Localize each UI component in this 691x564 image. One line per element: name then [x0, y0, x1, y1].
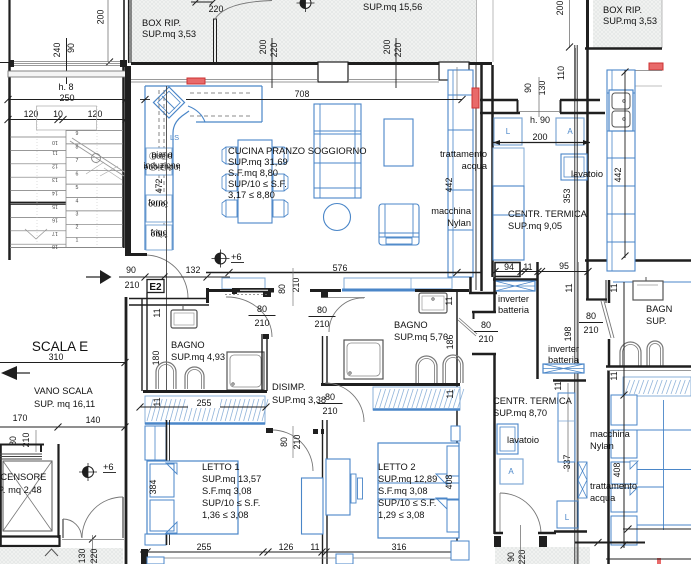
svg-text:16: 16 [52, 217, 58, 223]
svg-text:9: 9 [76, 131, 79, 137]
svg-text:130: 130 [77, 549, 87, 564]
svg-text:210: 210 [291, 278, 301, 293]
svg-text:CENTR. TERMICA: CENTR. TERMICA [508, 209, 588, 219]
svg-text:LS: LS [170, 133, 179, 142]
svg-text:inverter: inverter [548, 344, 579, 354]
svg-text:3,17 ≤ 8,80: 3,17 ≤ 8,80 [228, 189, 275, 200]
svg-text:132: 132 [186, 265, 201, 275]
svg-text:80: 80 [586, 311, 596, 321]
svg-text:CENTR. TERMICA: CENTR. TERMICA [493, 396, 573, 406]
svg-text:L: L [506, 127, 511, 136]
svg-text:Nylan: Nylan [590, 441, 614, 451]
svg-text:12: 12 [52, 163, 58, 169]
svg-text:110: 110 [556, 66, 566, 80]
svg-text:11: 11 [564, 283, 574, 292]
svg-text:255: 255 [197, 542, 212, 552]
svg-text:11: 11 [52, 149, 57, 155]
svg-text:210: 210 [583, 325, 598, 335]
svg-text:1,29 ≤ 3,08: 1,29 ≤ 3,08 [378, 510, 424, 520]
svg-text:408: 408 [444, 475, 454, 490]
svg-text:220: 220 [393, 43, 403, 58]
svg-text:80: 80 [481, 320, 491, 330]
svg-text:210: 210 [478, 334, 493, 344]
svg-text:90: 90 [523, 83, 533, 93]
svg-text:macchina: macchina [590, 429, 631, 439]
svg-text:11: 11 [609, 283, 619, 292]
svg-text:lavatoio: lavatoio [571, 169, 603, 179]
svg-text:198: 198 [563, 327, 573, 342]
svg-text:1: 1 [76, 238, 79, 244]
svg-text:11: 11 [553, 381, 563, 390]
svg-text:VANO SCALA: VANO SCALA [34, 386, 94, 396]
svg-text:200: 200 [382, 40, 392, 55]
svg-text:80: 80 [317, 305, 327, 315]
svg-text:200: 200 [96, 10, 106, 25]
svg-text:170: 170 [13, 413, 28, 423]
svg-text:11: 11 [152, 397, 162, 406]
svg-text:11: 11 [523, 262, 532, 272]
svg-text:BOX RIP.: BOX RIP. [142, 18, 181, 28]
svg-text:L: L [565, 513, 570, 522]
svg-text:piano: piano [151, 152, 172, 162]
svg-text:+6: +6 [103, 462, 114, 472]
svg-text:SUP.mq 13,57: SUP.mq 13,57 [202, 474, 261, 484]
svg-text:186: 186 [445, 335, 455, 350]
svg-text:lavatoio: lavatoio [507, 435, 539, 445]
svg-text:90: 90 [126, 265, 136, 275]
svg-text:SUP. mq 16,11: SUP. mq 16,11 [34, 399, 95, 409]
svg-text:trattamento: trattamento [590, 481, 637, 491]
svg-text:SUP.mq 31,69: SUP.mq 31,69 [228, 156, 288, 167]
svg-text:210: 210 [322, 406, 337, 416]
svg-text:acqua: acqua [462, 161, 488, 171]
svg-text:210: 210 [314, 319, 329, 329]
svg-text:11: 11 [152, 308, 162, 317]
svg-text:316: 316 [392, 542, 407, 552]
svg-text:310: 310 [49, 352, 64, 362]
svg-text:708: 708 [295, 89, 310, 99]
svg-text:SUP.mq 15,56: SUP.mq 15,56 [363, 2, 422, 12]
svg-text:BAGNO: BAGNO [394, 320, 428, 330]
svg-text:5: 5 [76, 185, 79, 191]
svg-text:220: 220 [269, 43, 279, 58]
svg-text:220: 220 [517, 550, 527, 564]
svg-text:17: 17 [52, 230, 58, 236]
svg-text:SUP.mq 8,70: SUP.mq 8,70 [493, 408, 547, 418]
svg-text:batteria: batteria [498, 305, 530, 315]
svg-text:+6: +6 [231, 252, 242, 262]
svg-text:SUP.mq 9,05: SUP.mq 9,05 [508, 221, 562, 231]
svg-text:120: 120 [88, 109, 103, 119]
svg-text:SUP.mq 12,89: SUP.mq 12,89 [378, 474, 437, 484]
svg-text:SUP.: SUP. [646, 316, 667, 326]
svg-text:frigo: frigo [150, 230, 167, 240]
svg-text:15: 15 [52, 203, 58, 209]
svg-text:442: 442 [613, 168, 623, 183]
svg-text:442: 442 [444, 178, 454, 193]
svg-text:14: 14 [52, 190, 58, 196]
svg-text:11: 11 [444, 296, 454, 305]
svg-text:CUCINA PRANZO SOGGIORNO: CUCINA PRANZO SOGGIORNO [228, 145, 367, 156]
svg-text:576: 576 [333, 263, 348, 273]
svg-text:SUP.mq 3,53: SUP.mq 3,53 [142, 29, 196, 39]
svg-text:E2: E2 [149, 282, 162, 293]
svg-text:10: 10 [52, 139, 58, 145]
svg-text:ASCENSORE: ASCENSORE [0, 472, 46, 482]
svg-text:140: 140 [86, 415, 101, 425]
svg-text:A: A [508, 467, 514, 476]
svg-text:SUP/10 ≤ S.F.: SUP/10 ≤ S.F. [202, 498, 260, 508]
svg-text:forno: forno [148, 200, 168, 210]
svg-text:200: 200 [555, 1, 565, 16]
svg-text:240: 240 [52, 43, 62, 58]
svg-text:13: 13 [52, 176, 58, 182]
svg-text:SUP/10 ≤ S.F.: SUP/10 ≤ S.F. [378, 498, 436, 508]
svg-text:11: 11 [445, 389, 455, 398]
svg-text:80: 80 [325, 392, 335, 402]
svg-text:6: 6 [76, 172, 79, 178]
svg-text:80: 80 [277, 284, 287, 294]
svg-text:BAGNO: BAGNO [171, 340, 205, 350]
svg-text:10: 10 [53, 109, 63, 119]
svg-text:LETTO 2: LETTO 2 [378, 462, 416, 472]
svg-text:90: 90 [506, 552, 516, 562]
svg-text:408: 408 [612, 463, 622, 478]
svg-text:acqua: acqua [590, 493, 616, 503]
svg-text:200: 200 [532, 132, 547, 142]
svg-text:BOX RIP.: BOX RIP. [603, 5, 642, 15]
svg-text:S.F.mq 3,08: S.F.mq 3,08 [378, 486, 428, 496]
svg-text:11: 11 [310, 542, 319, 552]
svg-text:250: 250 [59, 93, 74, 103]
svg-text:DISIMP.: DISIMP. [272, 382, 305, 392]
svg-text:94: 94 [504, 262, 514, 272]
svg-text:80: 80 [279, 437, 289, 447]
svg-text:7: 7 [76, 158, 79, 164]
svg-text:LETTO 1: LETTO 1 [202, 462, 240, 472]
svg-text:SUP.mq 5,76: SUP.mq 5,76 [394, 332, 448, 342]
svg-text:SUP. mq 2,48: SUP. mq 2,48 [0, 485, 42, 495]
svg-text:130: 130 [537, 81, 547, 96]
svg-text:BAGN: BAGN [646, 304, 672, 314]
svg-text:Nylan: Nylan [447, 218, 471, 228]
svg-text:353: 353 [562, 189, 572, 204]
svg-text:472: 472 [154, 179, 164, 194]
svg-text:2: 2 [76, 225, 79, 231]
svg-text:11: 11 [609, 371, 619, 380]
svg-text:220: 220 [89, 549, 99, 564]
svg-text:210: 210 [292, 435, 302, 450]
svg-text:macchina: macchina [431, 206, 472, 216]
svg-text:200: 200 [258, 40, 268, 55]
svg-text:induzione: induzione [143, 163, 180, 173]
svg-text:inverter: inverter [498, 294, 529, 304]
svg-text:126: 126 [279, 542, 294, 552]
svg-text:255: 255 [197, 398, 212, 408]
svg-text:180: 180 [151, 351, 161, 366]
svg-text:SUP.mq 4,93: SUP.mq 4,93 [171, 352, 225, 362]
svg-text:S.F.mq 3,08: S.F.mq 3,08 [202, 486, 252, 496]
svg-text:95: 95 [559, 261, 569, 271]
svg-text:80: 80 [257, 304, 267, 314]
svg-text:SUP/10 ≤ S.F.: SUP/10 ≤ S.F. [228, 178, 287, 189]
svg-text:h. 8: h. 8 [58, 82, 73, 92]
svg-text:18: 18 [52, 243, 58, 249]
svg-text:1,36 ≤ 3,08: 1,36 ≤ 3,08 [202, 510, 248, 520]
svg-text:4: 4 [76, 199, 79, 205]
svg-text:210: 210 [254, 318, 269, 328]
svg-text:384: 384 [148, 480, 158, 495]
svg-text:S.F.mq 8,80: S.F.mq 8,80 [228, 167, 278, 178]
svg-text:trattamento: trattamento [440, 149, 487, 159]
svg-text:3: 3 [76, 212, 79, 218]
svg-text:210: 210 [125, 280, 140, 290]
svg-text:SUP.mq 3,53: SUP.mq 3,53 [603, 16, 657, 26]
svg-text:90: 90 [66, 43, 76, 53]
svg-text:A: A [567, 127, 573, 136]
svg-text:h. 90: h. 90 [530, 115, 550, 125]
